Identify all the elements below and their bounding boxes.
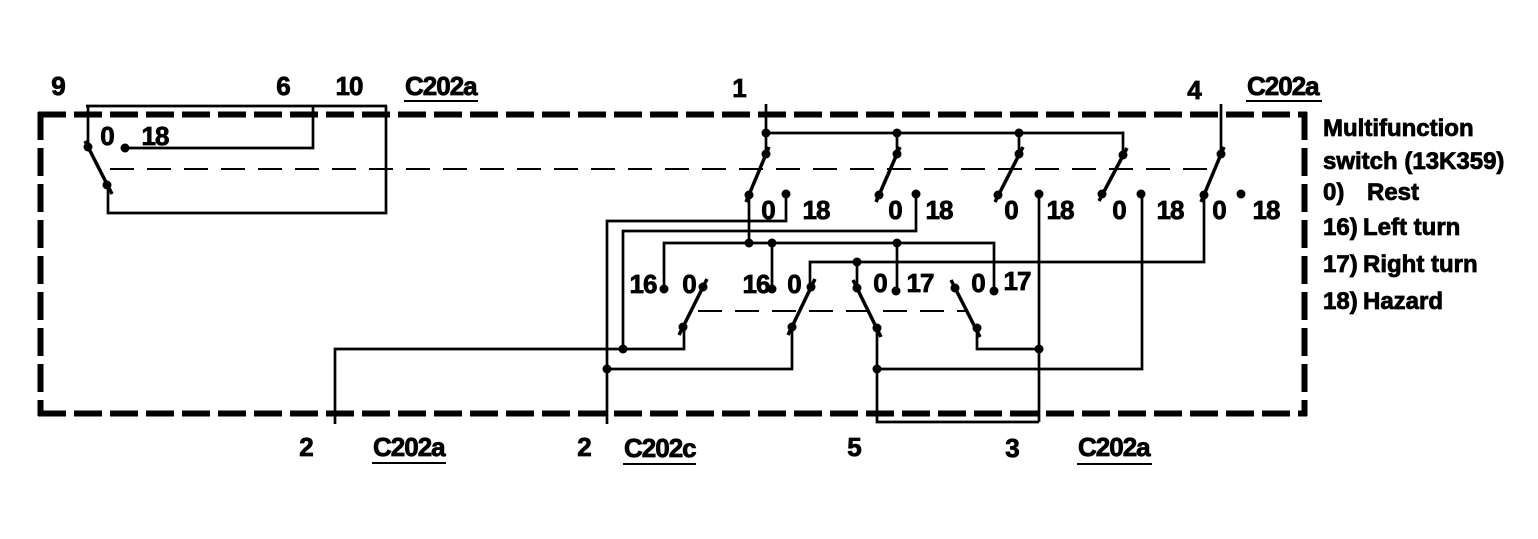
dot S1 pivot [762, 150, 771, 159]
svg-text:3: 3 [1005, 433, 1019, 463]
dot switch C pivot [873, 324, 882, 333]
svg-text:2: 2 [577, 432, 591, 462]
dot switch B pivot [788, 323, 797, 332]
coupling dashed line top row [110, 168, 1216, 170]
dot switch D pivot [973, 324, 982, 333]
svg-text:18): 18) [1323, 288, 1358, 315]
dot node L3a [603, 365, 612, 374]
dot hazard-left contact 18 [121, 144, 130, 153]
dot S5 pivot [1217, 150, 1226, 159]
svg-text:C202a: C202a [373, 432, 446, 462]
wire S1 contact 18 to pin 2 C202c [607, 194, 786, 424]
svg-text:5: 5 [847, 432, 861, 462]
dot S3 pivot [1015, 150, 1024, 159]
svg-text:16: 16 [630, 269, 657, 299]
svg-text:0: 0 [1212, 195, 1226, 225]
dot S5 contact 18 [1237, 190, 1246, 199]
lever switch S3 [995, 147, 1023, 202]
svg-text:1: 1 [732, 73, 746, 103]
dot hazard-left pivot [103, 181, 112, 190]
svg-text:18: 18 [926, 195, 953, 225]
wire switch C lever to pin 5 and jog to pin 3 [877, 328, 1039, 422]
stub switch S2 [896, 133, 899, 154]
lever switch A [679, 279, 707, 335]
lever switch S4 [1099, 148, 1127, 201]
svg-text:0: 0 [873, 268, 887, 298]
svg-text:9: 9 [51, 71, 65, 101]
wire L1 bus [664, 243, 994, 291]
svg-text:16): 16) [1323, 214, 1358, 241]
dot switch A contact 0 [699, 283, 708, 292]
dot L1 junction B16 [768, 239, 777, 248]
svg-text:C202a: C202a [405, 71, 478, 101]
wire switch D lever to node 1039 [977, 328, 1039, 349]
svg-text:0: 0 [888, 195, 902, 225]
svg-text:C202a: C202a [1247, 71, 1320, 101]
wire pin 10 to lever pivot [108, 106, 386, 213]
dot S2 contact 18 [912, 190, 921, 199]
wire pin 9 to contact 0 [87, 106, 90, 147]
svg-text:0: 0 [971, 268, 985, 298]
dot bus S2 [893, 129, 902, 138]
dot S4 contact 18 [1137, 190, 1146, 199]
svg-text:10: 10 [336, 71, 363, 101]
svg-text:18: 18 [803, 195, 830, 225]
svg-text:Multifunction: Multifunction [1323, 115, 1474, 142]
dot S4 pivot [1119, 151, 1128, 160]
wire pin 4 to switch S5 pivot [1220, 104, 1223, 155]
wire S2 contact 18 to node on line 349 [623, 194, 916, 349]
coupling dashed line second row [698, 310, 966, 312]
dot S3 contact 18 [1035, 190, 1044, 199]
svg-text:Hazard: Hazard [1363, 288, 1443, 315]
dot L1 junction C17 [893, 239, 902, 248]
dot switch D contact 17 [990, 287, 999, 296]
svg-text:Rest: Rest [1367, 179, 1419, 206]
svg-text:C202a: C202a [1078, 432, 1151, 462]
svg-text:18: 18 [142, 121, 169, 151]
dot S4 contact 0 [1098, 190, 1107, 199]
wire L1 branch to switch B contact 16 [771, 243, 774, 289]
dot switch C contact 17 [892, 287, 901, 296]
svg-text:0: 0 [682, 269, 696, 299]
dot node 1039-349 [1035, 345, 1044, 354]
wire pin 1 tick [765, 104, 768, 133]
wire S3 contact 18 to pin 3 [1038, 194, 1041, 422]
lever switch D [951, 280, 980, 337]
wire pin 2 C202a to switch A lever [335, 327, 684, 424]
wire node L3a to switch B lever [607, 328, 792, 369]
svg-text:18: 18 [1157, 195, 1184, 225]
stub switch S3 [1018, 133, 1021, 154]
svg-text:4: 4 [1187, 75, 1202, 105]
lever switch C [853, 280, 881, 337]
dot switch A contact 16 [660, 285, 669, 294]
dot switch B contact 0 [807, 283, 816, 292]
svg-text:C202c: C202c [624, 433, 696, 463]
lever switch B [788, 279, 815, 335]
wire L2 branch to switch C contact 0 [856, 262, 859, 288]
svg-text:0: 0 [1004, 195, 1018, 225]
svg-text:17: 17 [907, 268, 934, 298]
dot S1 contact 0 [745, 191, 754, 200]
svg-text:Right turn: Right turn [1363, 251, 1478, 278]
wire S5 contact 0 via L2 to switch B contact 0 [810, 195, 1204, 287]
svg-text:18: 18 [1253, 195, 1280, 225]
svg-text:16: 16 [743, 269, 770, 299]
svg-text:0): 0) [1323, 179, 1344, 206]
svg-text:17): 17) [1323, 251, 1358, 278]
bus wire top row [766, 132, 1123, 135]
dot switch A pivot [679, 323, 688, 332]
dot switch B contact 16 [768, 285, 777, 294]
dot S1 contact 18 [782, 190, 791, 199]
svg-text:0: 0 [761, 195, 775, 225]
switch lever (hazard switch left) [85, 141, 112, 194]
dot node y349 [619, 345, 628, 354]
bus wire pins 9-6-10 [86, 105, 387, 108]
svg-text:6: 6 [276, 71, 290, 101]
dot switch D contact 0 [951, 284, 960, 293]
stub switch S4 [1122, 132, 1125, 156]
dot bus pin1 [762, 129, 771, 138]
dot hazard-left contact 0 [84, 143, 93, 152]
svg-text:2: 2 [299, 432, 313, 462]
svg-text:Left turn: Left turn [1363, 214, 1460, 241]
lever switch S5 [1201, 147, 1224, 202]
dot L2 junction C0 [853, 258, 862, 267]
svg-text:0: 0 [787, 269, 801, 299]
svg-text:0: 0 [1112, 195, 1126, 225]
wire L1 branch to switch C contact 17 [896, 243, 899, 291]
stub switch S1 [765, 133, 768, 154]
dot S2 pivot [893, 150, 902, 159]
lever switch S2 [876, 147, 900, 202]
svg-text:18: 18 [1047, 195, 1074, 225]
wire S1 contact 0 down to node L1 [748, 195, 751, 243]
svg-text:0: 0 [100, 121, 114, 151]
svg-text:17: 17 [1004, 266, 1031, 296]
dot S2 contact 0 [875, 191, 884, 200]
dot S5 contact 0 [1200, 191, 1209, 200]
wire pin 6 to contact 18 [125, 106, 313, 148]
lever switch S1 [746, 147, 769, 202]
dot bus S3 [1015, 129, 1024, 138]
wire node L3b to S4 contact 18 [877, 194, 1142, 369]
dot switch C contact 0 [853, 284, 862, 293]
svg-text:switch (13K359): switch (13K359) [1323, 148, 1504, 175]
dot S3 contact 0 [994, 191, 1003, 200]
switch box dashed border [38, 112, 1307, 416]
dot node L3b [873, 365, 882, 374]
dot L1 junction S1 [745, 239, 754, 248]
